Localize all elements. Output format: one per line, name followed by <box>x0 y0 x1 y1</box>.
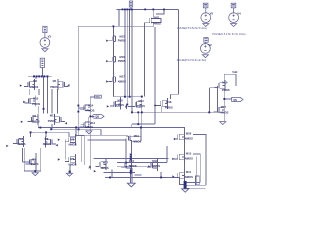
svg-text:NMOS: NMOS <box>101 166 109 170</box>
svg-text:M17: M17 <box>120 75 126 79</box>
svg-text:M10: M10 <box>33 96 39 100</box>
junction dots mid rail <box>124 96 126 98</box>
wire M5 source <box>35 168 37 171</box>
svg-text:PMOS: PMOS <box>118 59 126 63</box>
junction dot x43.5 row2 <box>43 108 45 110</box>
ground V5 <box>203 24 209 27</box>
svg-text:PMOS: PMOS <box>32 102 40 106</box>
svg-text:NMOS: NMOS <box>118 79 126 83</box>
transistor T-left bottom <box>95 159 106 170</box>
wire left bus y76.3 <box>28 75 52 77</box>
svg-text:PMOS: PMOS <box>48 119 56 123</box>
wire bus vertical B <box>126 9 128 104</box>
junction dot row3 bottom <box>39 127 41 129</box>
wire y177.4 <box>105 177 186 184</box>
ground left cluster <box>32 173 38 176</box>
svg-text:QN: QN <box>233 99 237 102</box>
wire row4 top rail <box>31 132 69 137</box>
svg-text:M5: M5 <box>32 157 36 161</box>
svg-text:PMOS: PMOS <box>118 39 126 43</box>
transistor M16 inv <box>214 80 225 91</box>
wire line y140.1 <box>88 139 127 141</box>
port M7 <box>58 158 60 160</box>
junction dot col top <box>113 25 115 27</box>
wire row1L top <box>35 76 37 79</box>
wire bus vertical C <box>129 9 131 96</box>
wire inverter input vertical right <box>210 86 219 113</box>
wire bottom-right inner column <box>183 142 185 152</box>
port M17c <box>106 80 108 82</box>
wire M20 top <box>120 97 122 99</box>
port MB <box>172 158 174 160</box>
svg-text:PULSE(0 5 0 5n 5n 5n 4ns): PULSE(0 5 0 5n 5n 5n 4ns) <box>177 27 207 30</box>
transistor M19 <box>126 133 141 143</box>
transistor M13 <box>80 119 91 130</box>
wire M14 drain down <box>89 111 91 116</box>
svg-text:PMOS: PMOS <box>116 103 124 107</box>
wire M5 gate stub <box>22 161 29 163</box>
wire vdd label mid stub <box>90 97 94 104</box>
wire row1R top <box>46 76 48 113</box>
svg-text:NMOS: NMOS <box>18 142 26 146</box>
wire M13 top <box>89 116 91 121</box>
transistor M4 <box>13 136 24 147</box>
port row3L <box>21 121 23 123</box>
svg-text:NMOS: NMOS <box>185 137 193 141</box>
wire M18 top stub <box>170 94 178 99</box>
svg-text:M20: M20 <box>118 99 124 103</box>
port T-left bottom <box>94 170 96 172</box>
svg-text:M16: M16 <box>222 81 228 85</box>
wire M19 drain up <box>140 112 143 134</box>
ground inverter <box>220 122 226 125</box>
transistor T-right bottom <box>147 160 158 171</box>
wire bottom-right B stub <box>193 154 200 182</box>
wire row2 bottom <box>38 106 40 114</box>
svg-text:M3: M3 <box>32 114 36 118</box>
transistor M20 <box>110 98 121 109</box>
wire x43.5 long <box>43 76 45 113</box>
svg-text:PMOS: PMOS <box>222 88 230 92</box>
wire y173.3 <box>103 172 141 175</box>
svg-text:M14: M14 <box>88 104 94 108</box>
wire inverter nmos source <box>223 116 225 121</box>
port MA <box>174 138 176 140</box>
wire top pmos drain drop <box>154 27 156 124</box>
wire M18 gate stub <box>154 106 162 113</box>
wire ground drop left <box>34 171 36 173</box>
wire inverter vdd rail <box>224 74 236 86</box>
svg-text:VDD: VDD <box>95 97 100 99</box>
wire bottom T-left bottom <box>111 170 113 178</box>
transistor M16 col <box>109 56 116 62</box>
transistor M1 <box>58 79 69 90</box>
wire row4 bottoms <box>23 148 25 171</box>
output flag QB <box>93 115 104 119</box>
port row4L <box>6 145 8 147</box>
transistor M11 <box>54 114 65 125</box>
svg-text:PMOS: PMOS <box>30 85 38 89</box>
ground M13 <box>86 131 92 134</box>
transistor MA bottom-right <box>174 131 185 142</box>
svg-text:PMOS: PMOS <box>87 109 95 113</box>
svg-text:M16: M16 <box>129 159 135 163</box>
svg-text:M6: M6 <box>71 137 75 141</box>
svg-text:M15: M15 <box>120 34 126 38</box>
transistor M7 <box>65 154 76 165</box>
wire M6M7 input tie <box>65 140 67 160</box>
port MC <box>172 175 174 177</box>
svg-text:M18: M18 <box>166 100 172 104</box>
transistor M14 <box>80 102 91 113</box>
transistor T-mid bottom <box>121 160 132 171</box>
junction dots bottom bus <box>125 162 127 164</box>
svg-text:NMOS: NMOS <box>85 125 93 129</box>
transistor M12 <box>131 99 142 110</box>
ground V3 <box>42 49 48 52</box>
junction dot inverter out <box>223 98 225 100</box>
transistor M6 <box>65 134 76 145</box>
junction dots y177.4 <box>109 177 111 179</box>
port T-mid bottom <box>125 166 127 168</box>
bottom cluster connectors <box>106 158 158 160</box>
svg-text:PULSE(0 5 0 5n 5n 4n 4ns): PULSE(0 5 0 5n 5n 4n 4ns) <box>177 59 207 62</box>
wire mid rail y96.7 <box>113 96 141 98</box>
svg-text:M21: M21 <box>154 15 160 19</box>
voltage source V3 <box>40 26 50 47</box>
svg-text:M13: M13 <box>90 121 96 125</box>
svg-text:PULSE(0 5 0 5n 5n 5n 10ns): PULSE(0 5 0 5n 5n 5n 10ns) <box>212 33 245 36</box>
wire QB vertical feedback <box>87 117 89 127</box>
wire bottom-right inner vertical <box>196 157 198 185</box>
svg-text:V3: V3 <box>48 34 52 38</box>
label flag VDD left <box>40 58 44 67</box>
svg-text:PMOS: PMOS <box>153 22 161 26</box>
transistor M15 col <box>109 36 116 42</box>
port M15c <box>106 40 108 42</box>
svg-text:PMOS: PMOS <box>165 105 173 109</box>
label flag VDD mid cluster <box>95 95 102 98</box>
junction dot left gnd <box>34 170 36 172</box>
svg-text:M16: M16 <box>120 55 126 59</box>
transistor M21 top <box>150 9 164 27</box>
svg-text:V5: V5 <box>210 12 214 16</box>
wire M14 gate stub <box>78 107 85 109</box>
wire bottom left rail y171 <box>24 170 41 172</box>
svg-text:M8: M8 <box>45 137 49 141</box>
wire bottom-right bulk box C <box>195 176 199 185</box>
label flag VDD top middle <box>129 1 132 9</box>
svg-text:M12: M12 <box>139 99 145 103</box>
wire inverter mid column <box>223 91 225 104</box>
wire bottom bus y161.2 <box>117 162 167 164</box>
svg-text:QB: QB <box>95 116 99 119</box>
wire node line y111.9 <box>132 111 219 113</box>
svg-text:V2: V2 <box>208 43 212 47</box>
transistor M18 <box>157 98 168 109</box>
svg-text:NMOS: NMOS <box>69 162 77 166</box>
svg-text:M4: M4 <box>19 137 23 141</box>
voltage source V2 <box>201 38 211 54</box>
junction dots tap <box>137 111 139 113</box>
port row1R <box>67 84 69 86</box>
svg-text:M26: M26 <box>186 132 192 136</box>
svg-text:M2: M2 <box>33 79 37 83</box>
junction dots left bus <box>33 75 35 77</box>
port M20 <box>107 105 109 107</box>
transistor MB bottom-right <box>174 151 185 162</box>
port row4R <box>56 144 58 146</box>
transistor M17 col <box>109 77 116 83</box>
wire left cluster bus drop label <box>41 67 43 76</box>
wire M12 gate stub <box>128 106 134 108</box>
wire long horizontal upper <box>77 26 79 135</box>
wire M20 drain <box>126 105 128 109</box>
svg-text:M17: M17 <box>221 105 227 109</box>
wire M19 gate drop <box>125 138 127 166</box>
wire bottom-right A stub <box>193 135 206 186</box>
svg-text:NMOS: NMOS <box>152 164 160 168</box>
wire M6 bulk loop <box>75 132 90 170</box>
svg-text:PMOS: PMOS <box>50 85 58 89</box>
svg-text:M1: M1 <box>53 79 57 83</box>
svg-text:PMOS: PMOS <box>137 104 145 108</box>
wire right drop from bus <box>178 9 180 94</box>
svg-text:V4: V4 <box>237 12 241 16</box>
junction dots node line <box>126 104 128 106</box>
port M16c <box>106 60 108 62</box>
wire T-right bottom <box>160 172 162 177</box>
wire M7 source to gnd <box>69 165 71 173</box>
transistor M10 <box>25 95 36 106</box>
voltage source V5 <box>201 3 211 22</box>
transistor MC bottom-right <box>174 170 185 181</box>
svg-text:M11: M11 <box>50 113 56 117</box>
wire bottom-right bottom rail <box>187 182 206 185</box>
wire long line y129.3 <box>52 124 101 129</box>
middle column connectors <box>113 9 119 96</box>
port row1L <box>20 84 22 86</box>
port T-right bottom <box>148 165 150 167</box>
svg-text:NMOS: NMOS <box>30 162 38 166</box>
transistor M17 inv <box>214 104 225 115</box>
svg-text:NMOS: NMOS <box>69 143 77 147</box>
wire node tap x138.2 <box>132 112 155 127</box>
wire M19 source down <box>130 143 132 161</box>
transistor M2 <box>24 79 35 90</box>
svg-text:NMOS: NMOS <box>185 156 193 160</box>
ground bottom right <box>182 189 189 192</box>
wire row1R bottoms <box>51 89 53 114</box>
wire bottom mid ground drop <box>131 168 132 183</box>
svg-text:Vdd: Vdd <box>232 70 237 74</box>
wire bus vertical A <box>124 9 126 96</box>
transistor M5 <box>26 156 37 167</box>
wire bottom bus y159.6 <box>94 157 169 159</box>
wire QB stub <box>90 115 94 117</box>
svg-text:M11: M11 <box>186 170 192 174</box>
junction dot M7 gnd <box>69 171 71 173</box>
wire bottom gate line y166.2 <box>117 165 150 167</box>
ground M7 <box>66 173 72 176</box>
wire M12 top <box>141 97 143 99</box>
svg-text:M15: M15 <box>186 151 192 155</box>
port M18 <box>155 104 157 106</box>
svg-text:M19: M19 <box>134 134 140 138</box>
svg-text:M17: M17 <box>103 160 109 164</box>
svg-text:NMOS: NMOS <box>129 164 137 168</box>
output flag QN <box>232 97 243 101</box>
junction dots top bus <box>122 9 124 11</box>
ground V2 <box>202 55 208 58</box>
wire line y135.2 <box>81 135 128 162</box>
voltage source V4 <box>229 3 239 22</box>
transistor M8 <box>45 136 56 147</box>
ground V4 <box>231 24 237 27</box>
svg-text:PMOS: PMOS <box>32 119 40 123</box>
wire gate feed top pmos <box>145 23 150 97</box>
port row3R <box>65 122 67 124</box>
wire bus vertical D <box>131 9 133 112</box>
junction blob bottom right <box>184 181 187 189</box>
svg-text:NMOS: NMOS <box>133 139 141 143</box>
svg-text:NMOS: NMOS <box>185 175 193 179</box>
svg-text:M7: M7 <box>71 157 75 161</box>
wire inverter top drop <box>75 127 77 136</box>
wire M13 gate stub <box>81 124 85 126</box>
junction dot QB <box>89 116 91 118</box>
port row2 <box>23 101 25 103</box>
port M6 <box>58 139 60 141</box>
transistor M3 <box>28 114 39 125</box>
port M12 <box>125 105 127 107</box>
junction dots row4 rail <box>30 131 32 133</box>
junction dot M19 drain <box>140 127 142 129</box>
wire M12 bottom <box>141 109 143 112</box>
junction dots x78 column <box>77 105 79 107</box>
svg-text:M14: M14 <box>152 159 158 163</box>
wire VDD bus top <box>117 8 179 10</box>
wire long line y127.4 <box>38 124 184 131</box>
svg-text:NMOS: NMOS <box>43 142 51 146</box>
wire M5 top stub <box>35 153 37 156</box>
wire inverter out stub <box>224 98 231 100</box>
wire x166.2 riser <box>166 146 168 163</box>
ground bottom middle <box>127 183 135 187</box>
wire row1L bottoms <box>28 89 30 95</box>
wire corner x101 <box>100 129 102 135</box>
svg-text:NMOS: NMOS <box>220 110 228 114</box>
